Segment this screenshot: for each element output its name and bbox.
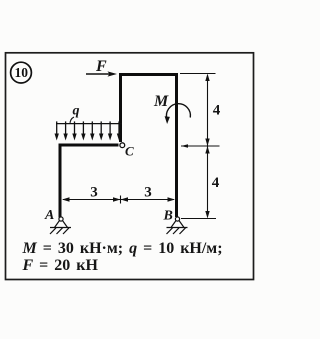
svg-text:B: B	[163, 209, 173, 224]
svg-text:4: 4	[213, 103, 221, 119]
svg-text:4: 4	[212, 175, 220, 191]
svg-text:M: M	[153, 93, 169, 110]
svg-text:C: C	[125, 144, 134, 159]
svg-text:A: A	[44, 208, 54, 223]
svg-text:3: 3	[90, 185, 98, 201]
svg-text:F: F	[95, 58, 107, 75]
svg-text:q: q	[73, 104, 80, 119]
svg-text:3: 3	[144, 185, 152, 201]
svg-text:10: 10	[15, 65, 29, 80]
